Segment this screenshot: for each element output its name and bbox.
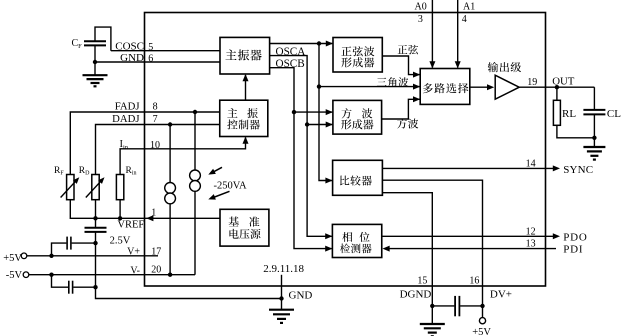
svg-text:4: 4: [462, 14, 467, 25]
svg-text:19: 19: [527, 77, 537, 88]
svg-text:DV+: DV+: [490, 288, 512, 300]
wire ground rail left: [96, 232, 282, 299]
resistor RL: [553, 87, 594, 138]
svg-text:17: 17: [151, 246, 161, 257]
op-amp output stage: [495, 75, 519, 99]
wire VREF pin 1: [70, 200, 220, 222]
svg-text:13: 13: [526, 239, 536, 250]
wire V- pin 20: [29, 274, 195, 276]
svg-text:GND: GND: [289, 290, 313, 302]
wire square shaper input A: [294, 109, 333, 115]
wire A0 pin 3: [429, 0, 435, 69]
junction OSCA drop: [317, 41, 321, 45]
wire sine to mux: [382, 56, 420, 78]
svg-text:PDO: PDO: [563, 231, 587, 243]
terminal +5V bottom: [479, 306, 485, 324]
wire COSC pin 5: [111, 50, 220, 52]
label 三角波: [377, 77, 408, 87]
junction CF ground: [93, 60, 97, 64]
svg-text:SYNC: SYNC: [563, 164, 593, 176]
wire mux to output stage: [470, 84, 494, 90]
svg-text:8: 8: [153, 102, 158, 113]
block comparator 比较器 U7: [333, 160, 383, 195]
svg-text:A0: A0: [415, 2, 427, 13]
wire comparator to DV+ pin 16: [382, 180, 482, 306]
label 输出级: [488, 62, 521, 72]
arrow to I1: [208, 191, 229, 199]
resistor Rin: [116, 175, 123, 200]
capacitor VREF bypass: [85, 218, 107, 232]
capacitor CL: [583, 87, 605, 138]
block phase detector 相位检测器 U8: [332, 224, 381, 257]
wire oscillator third output to phase detector: [270, 68, 333, 252]
wire square shaper input B: [307, 122, 333, 128]
IC boundary box: [145, 13, 546, 287]
wire PDI pin 13: [382, 246, 556, 252]
block reference 基准电压源 U3: [220, 209, 269, 246]
svg-text:14: 14: [526, 159, 536, 170]
capacitor CF: [84, 41, 106, 45]
terminal -5V: [23, 272, 29, 278]
terminal +5V: [21, 253, 27, 259]
block oscillator 主振器 U1: [220, 37, 270, 74]
block multiplexer 多路选择 U6: [420, 69, 470, 105]
wire OSCA drop to comparator: [319, 44, 333, 184]
svg-text:15: 15: [417, 275, 427, 286]
svg-text:GND: GND: [120, 52, 144, 64]
ground (DGND): [431, 306, 433, 324]
svg-text:16: 16: [469, 275, 479, 286]
junction V- cap: [49, 273, 53, 277]
junction cap rail top: [93, 241, 97, 245]
junction cap rail bottom: [93, 285, 97, 289]
resistor RF (adjustable): [61, 175, 80, 200]
svg-text:PDI: PDI: [563, 243, 583, 255]
wire control to oscillator: [243, 74, 249, 100]
capacitor DGND-DV+: [432, 296, 482, 316]
wire FADJ pin 8: [70, 112, 220, 175]
svg-text:3: 3: [418, 14, 423, 25]
svg-text:DADJ: DADJ: [112, 113, 139, 125]
svg-text:6: 6: [148, 54, 153, 65]
svg-text:2.5V: 2.5V: [110, 235, 131, 246]
junction external ground: [279, 296, 283, 300]
wire DADJ pin 7: [96, 125, 221, 175]
wire V+ pin 17: [27, 255, 158, 257]
svg-text:7: 7: [153, 114, 158, 125]
svg-text:-250VA: -250VA: [214, 180, 247, 191]
svg-text:COSC: COSC: [115, 41, 144, 53]
junction RL CL ground: [592, 136, 596, 140]
capacitor -5V bypass: [52, 275, 96, 294]
wire OSCB to phase detector: [270, 56, 333, 240]
svg-text:10: 10: [150, 140, 160, 151]
ground (CF): [83, 75, 108, 86]
wire Iin pin 10: [120, 138, 245, 175]
svg-text:1: 1: [151, 208, 156, 219]
svg-text:+5V: +5V: [472, 327, 491, 336]
wire CF bottom plate to ground: [94, 45, 96, 75]
wire PDO pin 12: [382, 233, 560, 239]
svg-text:CL: CL: [607, 108, 621, 120]
junction V+ cap: [49, 254, 53, 258]
block sine shaper 正弦波形成器 U4: [333, 38, 382, 73]
svg-text:2.9.11.18: 2.9.11.18: [263, 263, 304, 275]
junction DGND: [430, 304, 434, 308]
wire CF top plate to COSC: [95, 27, 111, 51]
resistor RD (adjustable): [86, 175, 105, 200]
block square shaper 方波形成器 U5: [333, 100, 382, 134]
svg-text:+5V: +5V: [3, 253, 22, 264]
svg-text:20: 20: [151, 265, 161, 276]
svg-text:V+: V+: [127, 246, 140, 257]
svg-text:VREF: VREF: [117, 219, 144, 230]
junction DV+: [480, 304, 484, 308]
ground (GND): [281, 299, 283, 310]
wire SYNC pin 14: [382, 165, 560, 171]
junction RD-VREF: [93, 216, 97, 220]
junction I1-Vminus: [168, 273, 172, 277]
arrow to I2: [208, 167, 222, 174]
svg-text:DGND: DGND: [400, 288, 432, 300]
wire GND pin 6: [95, 61, 220, 63]
wire A1 pin 4: [455, 0, 461, 69]
svg-text:V-: V-: [130, 266, 140, 277]
junction Rin-VREF: [118, 216, 122, 220]
svg-text:RL: RL: [562, 108, 576, 120]
capacitor +5V bypass: [52, 237, 96, 256]
wire OSCA: [270, 41, 333, 47]
wire square to mux: [382, 96, 421, 119]
svg-text:A1: A1: [463, 2, 475, 13]
wire triangle to mux: [319, 84, 420, 90]
junction I1-DADJ: [168, 122, 172, 126]
wire comparator to DGND pin 15: [382, 193, 432, 306]
block control 主振控制器 U2: [220, 100, 268, 136]
label 方波: [397, 118, 418, 128]
ground (CL): [593, 138, 595, 147]
junction OUT: [555, 85, 559, 89]
current source I1: [165, 125, 176, 275]
svg-text:5: 5: [148, 42, 153, 53]
junction I2-FADJ: [193, 110, 197, 114]
current source I2: [190, 112, 201, 275]
svg-text:12: 12: [526, 226, 536, 237]
svg-text:-5V: -5V: [6, 270, 23, 281]
wire OUT pin 19: [519, 86, 594, 88]
junction third output square: [292, 110, 296, 114]
junction triangle: [317, 84, 321, 88]
label 正弦: [398, 45, 418, 55]
junction OSCB square: [305, 122, 309, 126]
svg-text:FADJ: FADJ: [115, 100, 140, 112]
wire GND pins 2.9.11.18: [281, 275, 283, 299]
